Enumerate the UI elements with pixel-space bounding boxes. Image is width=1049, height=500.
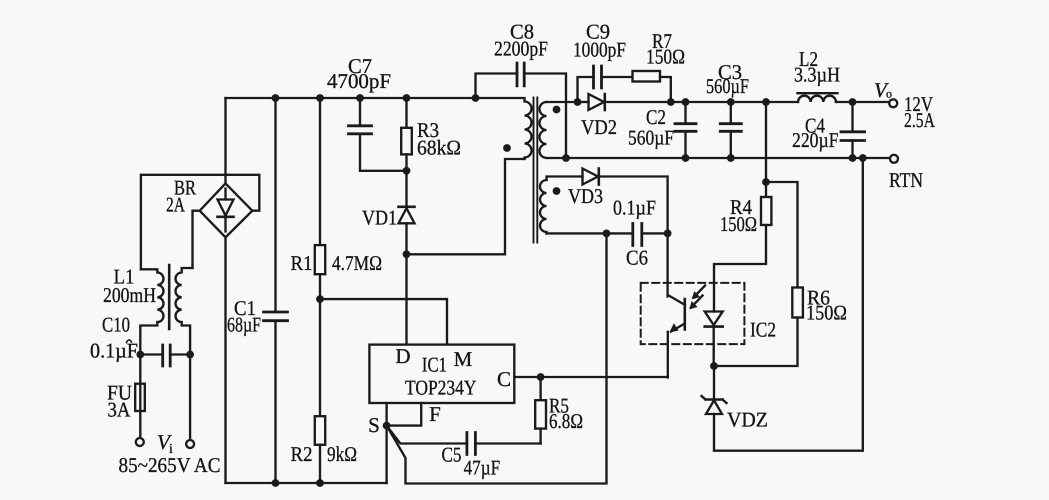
svg-text:4700pF: 4700pF [327,69,391,93]
terminal Vo [874,78,897,107]
svg-text:RTN: RTN [889,168,923,192]
node R3 top [403,94,411,102]
svg-text:R1: R1 [291,251,313,275]
wire S to ground rail [385,426,387,483]
svg-text:TOP234Y: TOP234Y [405,376,477,400]
wire C pin [514,376,667,378]
label 12V 2.5A [904,92,936,132]
node C8 / primary winding top [472,94,480,102]
terminal Vi left [136,438,144,446]
node C7 top [356,94,364,102]
common-mode choke L1 [103,265,193,355]
wire drain to D pin [405,254,407,344]
resistor R4 [714,102,771,312]
node C2 top [682,98,690,106]
node R4 top [762,98,770,106]
svg-text:3A: 3A [108,398,132,422]
wire output rail [605,101,798,103]
svg-text:C: C [497,367,511,391]
terminal Vi right [186,440,194,448]
wire ground rail [226,482,387,484]
resistor R6 [714,182,847,366]
wire bias return to source [387,233,607,483]
svg-text:IC1: IC1 [422,353,447,377]
wire BR right AC arm to L1 left winding [141,175,259,269]
svg-text:D: D [395,344,410,368]
svg-text:VD2: VD2 [581,115,617,139]
node C8 return [562,154,570,162]
svg-text:200mH: 200mH [103,283,156,307]
capacitor C5 [387,426,541,480]
pin F [387,403,422,426]
diode VD3 [568,169,668,297]
capacitor C10 [90,313,194,367]
node R5 top [537,373,545,381]
node VD2 anode [574,98,582,106]
capacitor C6 [547,196,672,270]
resistor R2 [291,416,358,483]
capacitor C2 [628,102,696,158]
svg-text:560µF: 560µF [706,74,749,98]
fuse FU [107,355,145,438]
svg-text:68kΩ: 68kΩ [417,136,461,160]
svg-text:C6: C6 [626,246,648,270]
optocoupler IC2 [641,283,776,378]
node C4 top [849,98,857,106]
capacitor C7 [327,54,407,171]
wire to M pin [320,299,447,345]
svg-text:M: M [454,347,473,371]
node S [383,422,391,430]
wire right AC leg [189,355,191,440]
transformer T1 bias winding [540,177,583,234]
transformer T1 primary winding [476,98,532,159]
svg-text:IC2: IC2 [750,318,776,342]
capacitor C3 [706,60,749,158]
svg-text:47µF: 47µF [464,456,501,480]
svg-text:220µF: 220µF [792,128,839,152]
svg-text:150Ω: 150Ω [646,45,685,69]
capacitor C1 [227,98,288,483]
inductor L2 [794,47,840,102]
svg-text:2A: 2A [166,193,186,217]
capacitor C9 [573,20,633,103]
node R3 bottom / C7 [403,167,411,175]
svg-text:4.7MΩ: 4.7MΩ [332,251,382,275]
node LED cathode / VDZ [710,362,718,370]
svg-text:68µF: 68µF [227,313,261,337]
resistor R1 [291,98,383,416]
diode VD1 [362,206,415,255]
svg-text:o: o [886,87,892,101]
bridge rectifier BR [166,98,252,237]
zener diode VDZ [702,158,863,451]
svg-text:VDZ: VDZ [727,408,768,432]
svg-text:VD1: VD1 [362,206,397,230]
svg-text:150Ω: 150Ω [720,212,757,236]
node R2 bottom [316,479,324,487]
resistor R5 [535,377,583,444]
terminal RTN [889,155,923,192]
svg-text:6.8Ω: 6.8Ω [549,409,583,433]
node R1/R2 junction [316,295,324,303]
node C1 bottom [272,479,280,487]
wire L2 to Vo [836,101,889,103]
wire drain to primary bottom [407,159,525,254]
svg-text:9kΩ: 9kΩ [327,442,357,466]
svg-text:2200pF: 2200pF [494,37,548,61]
transformer T1 secondary winding [540,102,578,158]
svg-text:1000pF: 1000pF [573,38,626,62]
svg-text:F: F [429,402,441,426]
capacitor C4 [792,102,865,158]
node R7 return [667,98,675,106]
capacitor C8 [476,20,567,159]
resistor R7 [633,29,686,102]
wire primary top rail [226,97,476,99]
node C3 bottom [727,154,735,162]
wire BR left AC arm to L1 right winding [193,211,200,268]
resistor R3 [401,98,461,207]
IC1 TOP234Y [369,344,514,403]
label Vi [157,430,173,457]
svg-text:0.1µF: 0.1µF [613,196,656,220]
wire RTN rail [547,157,891,159]
wire BR bottom to ground rail [224,237,226,483]
node R1 top [316,94,324,102]
svg-text:2.5A: 2.5A [904,108,936,132]
svg-text:85~265V AC: 85~265V AC [119,453,221,477]
pin S [385,403,387,426]
svg-text:S: S [368,413,380,437]
node C3 top [727,98,735,106]
node drain [403,250,411,258]
diode VD2 [578,94,618,139]
svg-text:C5: C5 [442,443,462,467]
svg-text:C10: C10 [102,313,130,337]
svg-text:3.3µH: 3.3µH [794,63,840,87]
node C2 bottom [682,154,690,162]
node VDZ return [859,154,867,162]
svg-text:R2: R2 [291,442,313,466]
svg-text:560µF: 560µF [628,125,674,149]
svg-text:VD3: VD3 [568,184,603,208]
transformer T1 core [534,98,538,243]
node C1 top [272,94,280,102]
svg-text:150Ω: 150Ω [806,301,847,325]
node C4 bottom [849,154,857,162]
